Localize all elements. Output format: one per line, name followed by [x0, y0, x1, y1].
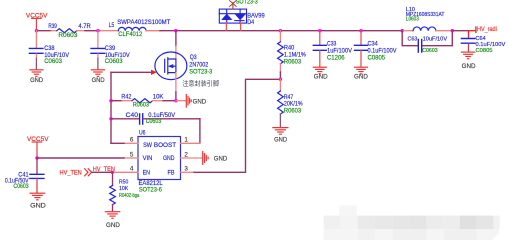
wire top rail left segment: [36, 30, 51, 32]
capacitor C33: [319, 31, 321, 45]
svg-text:C34: C34: [368, 41, 379, 48]
watermark: [324, 206, 500, 241]
svg-text:GND: GND: [214, 156, 228, 163]
node junction R42 left: [109, 99, 112, 102]
svg-text:SWPA4012S100MT: SWPA4012S100MT: [117, 19, 170, 26]
ground under C33: [313, 67, 326, 74]
svg-text:D4: D4: [247, 19, 254, 26]
svg-text:R0603: R0603: [58, 32, 77, 39]
inductor L10: [402, 30, 413, 32]
ground under C39: [91, 70, 104, 77]
capacitor C64: [468, 31, 470, 38]
svg-text:C0603: C0603: [146, 118, 162, 125]
ground under C64: [461, 52, 474, 59]
svg-text:R50: R50: [119, 180, 128, 186]
ground under C41: [30, 193, 44, 200]
node junction Q3 drain: [174, 29, 177, 32]
resistor R50: [112, 172, 114, 185]
capacitor C63 branch: [402, 31, 452, 46]
svg-text:C33: C33: [327, 41, 337, 48]
svg-text:L5: L5: [109, 22, 115, 29]
node junction VIN: [35, 156, 38, 159]
wire Q3 source: [175, 73, 177, 92]
svg-text:CLF4012: CLF4012: [118, 31, 142, 38]
svg-text:GND: GND: [30, 203, 46, 210]
node junction L10 right: [451, 29, 454, 32]
wire gate vertical: [110, 72, 112, 143]
svg-text:SOT23-3: SOT23-3: [236, 0, 258, 5]
wire FB net: [194, 79, 280, 172]
ground under R47: [273, 128, 288, 135]
svg-text:GND: GND: [106, 222, 120, 229]
svg-text:GND: GND: [274, 136, 287, 143]
wire main rail: [160, 30, 402, 32]
resistor R47: [279, 79, 281, 91]
svg-text:EN: EN: [143, 169, 151, 176]
svg-text:R39: R39: [48, 23, 57, 30]
wire C39 to gnd: [97, 54, 99, 59]
node junction R42 right: [174, 99, 177, 102]
svg-text:R0603: R0603: [133, 102, 150, 109]
wire VIN: [37, 157, 124, 159]
node junction C40 left: [109, 117, 112, 120]
svg-text:C0603: C0603: [44, 58, 62, 65]
svg-text:C0805: C0805: [368, 55, 386, 62]
node junction C39: [96, 29, 99, 32]
wire C40 down to pin1: [199, 119, 201, 144]
wire C41 to gnd: [36, 179, 38, 193]
svg-text:GND: GND: [92, 77, 106, 84]
capacitor C41: [36, 158, 38, 174]
capacitor C40: [111, 118, 139, 120]
port HV_radi: [475, 27, 477, 33]
resistor R42: [132, 99, 153, 103]
wire gate: [111, 71, 151, 73]
svg-text:R0402-bga: R0402-bga: [119, 193, 140, 199]
wire C38 to gnd: [35, 54, 37, 59]
svg-text:C1206: C1206: [327, 55, 345, 62]
svg-text:R40: R40: [284, 44, 295, 51]
ground under R50: [105, 212, 119, 219]
svg-text:GND: GND: [163, 155, 175, 162]
wire to HV_radi: [452, 30, 468, 32]
svg-text:VIN: VIN: [143, 155, 153, 162]
svg-text:C0603: C0603: [422, 48, 438, 54]
diode pins: [226, 23, 240, 31]
diode D4 BAV99: [219, 9, 246, 23]
svg-text:GND: GND: [462, 63, 476, 70]
svg-text:HV_TEN: HV_TEN: [60, 169, 83, 176]
ground pin 2: [203, 152, 208, 165]
svg-text:6: 6: [130, 136, 134, 143]
svg-text:R0603: R0603: [284, 108, 302, 115]
capacitor C38: [35, 31, 37, 48]
capacitor C39: [97, 31, 99, 48]
wire R50 to gnd: [112, 205, 114, 212]
svg-text:2: 2: [184, 151, 188, 158]
wire stub to L5: [98, 30, 118, 32]
svg-text:1: 1: [184, 136, 188, 143]
svg-text:GND: GND: [314, 73, 328, 80]
svg-text:C0805: C0805: [476, 48, 493, 54]
node junction C33: [318, 29, 321, 32]
svg-text:R42: R42: [121, 94, 131, 101]
svg-text:注意封装引脚: 注意封装引脚: [182, 78, 219, 87]
wire C64 to gnd: [468, 44, 470, 52]
wire R42 right: [153, 100, 164, 102]
node junction R50: [111, 171, 114, 174]
svg-text:SW: SW: [143, 142, 152, 149]
wire HV_TEN: [92, 171, 113, 173]
svg-text:5: 5: [130, 151, 134, 158]
resistor R39: [57, 29, 77, 33]
svg-text:10K: 10K: [153, 94, 164, 101]
svg-text:HV_radi: HV_radi: [477, 26, 497, 33]
svg-text:BOOST: BOOST: [154, 142, 176, 149]
node junction L10 left: [401, 29, 404, 32]
node junction FB: [279, 78, 282, 81]
svg-text:10K: 10K: [119, 186, 128, 192]
svg-text:C63: C63: [408, 36, 418, 42]
svg-text:R0603: R0603: [284, 58, 302, 65]
wire to gnd east: [176, 100, 186, 102]
svg-text:C0603: C0603: [13, 183, 29, 190]
svg-text:4: 4: [130, 165, 134, 172]
svg-text:GND: GND: [30, 77, 44, 84]
svg-text:GND: GND: [354, 73, 368, 80]
svg-text:3: 3: [184, 165, 188, 172]
wire stub L5 right: [146, 30, 160, 32]
node junction R40 top: [279, 29, 282, 32]
svg-text:SOT23-6: SOT23-6: [139, 187, 162, 194]
svg-text:C0603: C0603: [105, 58, 123, 65]
svg-text:GND: GND: [193, 98, 207, 105]
svg-text:Q3: Q3: [190, 54, 197, 61]
transistor Q3: [155, 52, 187, 80]
gate arrow: [151, 70, 157, 75]
svg-text:10uF/10V: 10uF/10V: [423, 36, 448, 42]
svg-text:U6: U6: [139, 129, 146, 136]
svg-text:4.7R: 4.7R: [78, 23, 91, 30]
node junction C38: [35, 29, 38, 32]
svg-text:C40: C40: [126, 112, 139, 119]
ground under C38: [30, 70, 43, 77]
svg-text:SOT23-3: SOT23-3: [189, 68, 212, 75]
ground east of R42: [186, 95, 191, 108]
svg-text:FB: FB: [168, 169, 175, 176]
wire to R42: [111, 100, 122, 102]
svg-text:L0603: L0603: [406, 17, 419, 23]
inductor L5: [118, 27, 146, 30]
wire R47 to gnd: [279, 114, 281, 127]
resistor R40: [279, 31, 281, 42]
no-connect X: [230, 1, 237, 7]
node junction C34: [359, 29, 362, 32]
wire rail R39 to C39 junction: [77, 30, 85, 32]
capacitor C34: [360, 31, 362, 45]
ground under C34: [355, 67, 368, 74]
wire C33 to gnd: [319, 51, 321, 67]
wire C34 to gnd: [360, 51, 362, 67]
wire drain: [175, 31, 177, 46]
